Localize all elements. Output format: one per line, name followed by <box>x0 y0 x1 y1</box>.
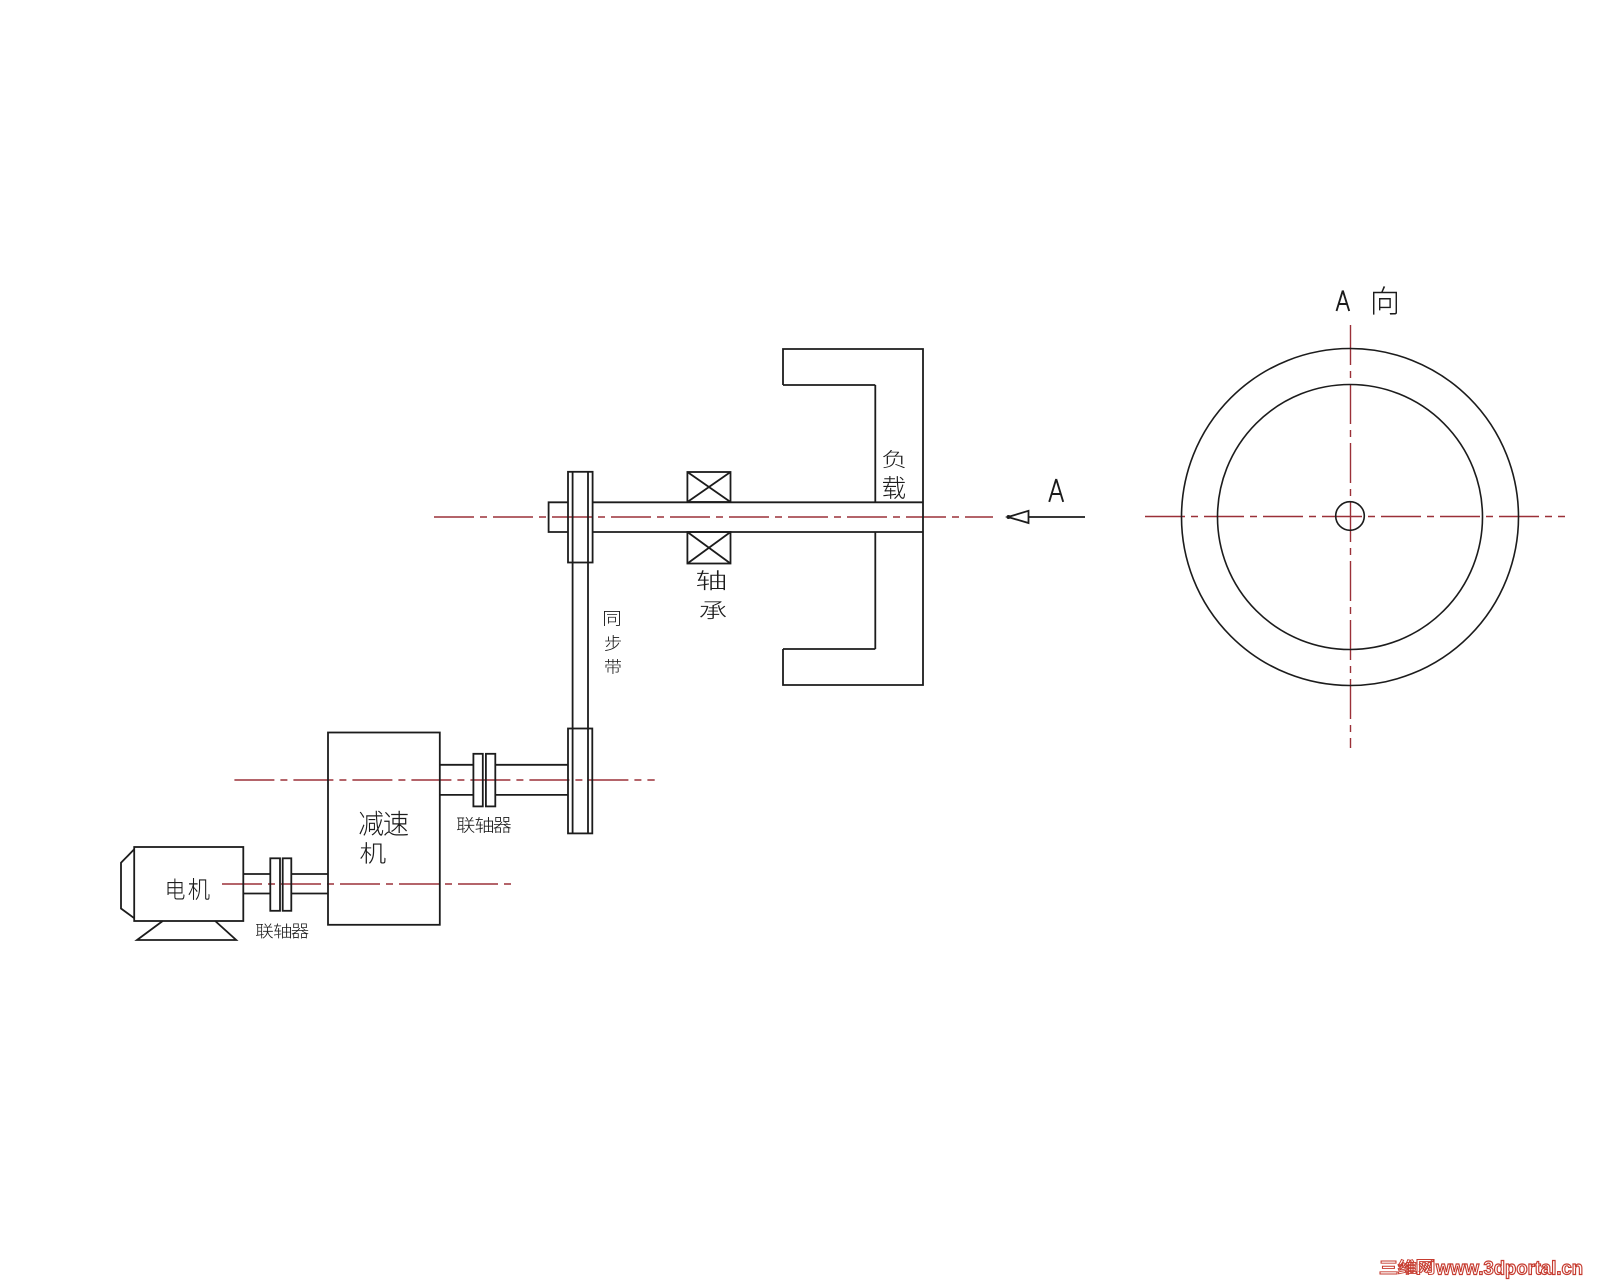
motor body <box>134 847 243 921</box>
upper belt pulley <box>568 472 593 563</box>
text label zhoucheng - zhou <box>697 570 725 590</box>
motor base <box>137 921 236 940</box>
motor end cap <box>121 849 134 918</box>
text label lianzhouqi(motor) - lian <box>256 923 273 938</box>
text label jiansuji - jian <box>359 811 383 836</box>
centerline A-view horizontal <box>1145 516 1565 518</box>
coupling 1 (motor-reducer) <box>270 858 280 911</box>
A-view wheel inner circle <box>1218 385 1483 650</box>
text label lianzhouqi(motor) - qi <box>292 924 309 939</box>
motor shaft <box>243 874 328 894</box>
letter A (view arrow label) <box>1049 479 1063 502</box>
view arrow tail <box>1029 516 1086 518</box>
load bracket inner wall <box>874 385 876 649</box>
view arrow tip dot <box>1007 515 1011 519</box>
watermark 3dportal red outline text <box>1380 1258 1583 1280</box>
centerline motor axis <box>222 883 514 885</box>
reducer output shaft <box>440 765 568 795</box>
synchronous belt runs <box>573 472 588 834</box>
text label lianzhouqi(reducer) - zhou <box>475 817 492 833</box>
main shaft left stub <box>549 502 569 532</box>
text label dianji - ji <box>189 878 210 900</box>
load bracket bottom arm inner edge <box>783 648 875 650</box>
reducer box <box>328 733 440 925</box>
text label lianzhouqi(reducer) - qi <box>494 817 511 833</box>
text label lianzhouqi(reducer) - lian <box>457 817 474 833</box>
centerline main shaft axis <box>434 516 993 518</box>
bearing upper box <box>687 472 730 502</box>
text label tongbudai - bu <box>605 635 621 651</box>
lower belt pulley <box>568 729 592 834</box>
text label dianji - dian <box>168 879 185 900</box>
text label fuzai - fu <box>883 450 905 468</box>
A-view hub circle <box>1336 502 1365 531</box>
text label jiansuji - su <box>384 811 408 836</box>
centerline reducer output axis <box>234 779 654 781</box>
text label fuzai - zai <box>883 476 905 499</box>
view arrow head <box>1008 511 1029 523</box>
A-view wheel outer circle <box>1182 349 1519 686</box>
letter A (A-view title) <box>1337 291 1350 312</box>
centerline A-view vertical <box>1350 325 1352 748</box>
text label A-view - xiang <box>1373 286 1397 314</box>
text label jiansuji - ji2 <box>360 842 385 864</box>
text label lianzhouqi(motor) - zhou <box>274 923 291 938</box>
coupling 2 (reducer-pulley) <box>473 754 482 807</box>
bearing lower box <box>687 532 730 564</box>
load bracket top arm inner edge <box>783 384 875 386</box>
text label tongbudai - tong <box>604 611 620 626</box>
svg-text:www.3dportal.cn: www.3dportal.cn <box>1435 1258 1583 1280</box>
text label zhoucheng - cheng <box>700 601 726 619</box>
main shaft <box>593 502 923 532</box>
load bracket outline <box>783 349 923 685</box>
text label tongbudai - dai <box>605 659 621 674</box>
